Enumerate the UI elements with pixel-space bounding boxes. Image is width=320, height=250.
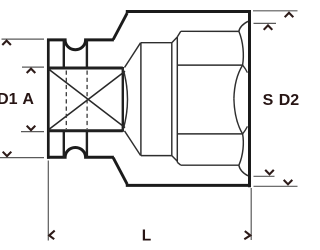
hex corner curve lower	[239, 134, 243, 165]
svg-text:A: A	[22, 91, 34, 108]
top chamfer between drive and big section	[113, 13, 127, 40]
dimension L left arrow	[49, 231, 55, 240]
dimension A top arrow	[27, 69, 36, 73]
inner bore right vertical	[171, 43, 173, 156]
groove left edge wall bottom	[63, 130, 65, 158]
hex start vertical	[176, 37, 178, 162]
dimension S top line	[254, 22, 277, 24]
drive section left face	[47, 39, 50, 159]
groove right edge wall bottom	[86, 130, 88, 158]
inner bore bottom line	[141, 155, 172, 157]
dimension S bottom arrow	[265, 170, 274, 174]
opening chamfer curve bottom	[239, 165, 248, 176]
dimension A bottom arrow	[27, 126, 36, 130]
square hole top line	[48, 67, 123, 70]
cross diagonal TL-BR	[49, 69, 125, 127]
dimension D2 top arrow	[285, 13, 294, 17]
cross diagonal BL-TR	[49, 71, 125, 129]
cone to hex upper diagonal	[172, 37, 178, 43]
cone to hex lower diagonal	[172, 156, 178, 162]
dimension S bottom line	[254, 175, 275, 177]
svg-text:D1: D1	[0, 91, 18, 108]
dimension D1 top line	[2, 38, 45, 40]
hex corner curve to center upper	[234, 65, 243, 99]
inner cone lower diagonal	[125, 131, 141, 156]
drive section bottom edge with groove notch	[47, 148, 114, 158]
dimension D2 bottom arrow	[284, 180, 293, 184]
groove left edge wall top	[63, 39, 65, 69]
hex flat line 2 top	[177, 64, 242, 66]
svg-text:S: S	[263, 92, 274, 109]
dimension L right arrow	[244, 231, 250, 239]
square hole end arc	[123, 68, 128, 131]
big section bottom edge	[126, 184, 251, 187]
corner branch bottom	[243, 126, 248, 133]
hex flat line 1 top	[181, 30, 239, 32]
dimension D2 top line	[253, 10, 298, 12]
bottom chamfer between drive and big section	[113, 158, 127, 185]
dimension D1 top arrow	[2, 41, 11, 45]
dimension A top line	[22, 66, 44, 68]
inner bore top line	[141, 42, 172, 44]
opening chamfer curve top	[239, 21, 248, 31]
hex flat line 1 bottom	[181, 164, 239, 166]
dimension L right extension line	[250, 188, 252, 240]
svg-text:D2: D2	[279, 92, 300, 109]
square hole bottom line	[48, 129, 123, 132]
groove right edge wall top	[86, 39, 88, 69]
hex corner curve to center lower	[234, 99, 243, 134]
dimension S top arrow	[264, 25, 273, 29]
hidden groove line right dashed	[86, 71, 88, 130]
dimension D1 bottom arrow	[3, 152, 12, 156]
dimension D2 bottom line	[254, 185, 298, 187]
square hole right wall	[122, 67, 124, 132]
dimension A bottom line	[21, 131, 44, 133]
dimension L left extension line	[47, 161, 49, 241]
big section top edge	[126, 10, 251, 13]
hex corner curve upper	[239, 31, 243, 65]
svg-text:L: L	[142, 227, 151, 244]
inner cone upper diagonal	[125, 43, 141, 68]
drive section top edge with groove notch	[47, 40, 114, 50]
inner bore left vertical	[140, 43, 142, 156]
corner branch top	[243, 65, 248, 73]
hidden groove line left dashed	[65, 71, 67, 130]
hex flat line 2 bottom	[177, 133, 242, 135]
hex flat tail upper	[177, 31, 181, 37]
big section right face	[248, 10, 251, 187]
hex flat tail lower	[177, 162, 181, 165]
dimension D1 bottom line	[0, 157, 44, 159]
